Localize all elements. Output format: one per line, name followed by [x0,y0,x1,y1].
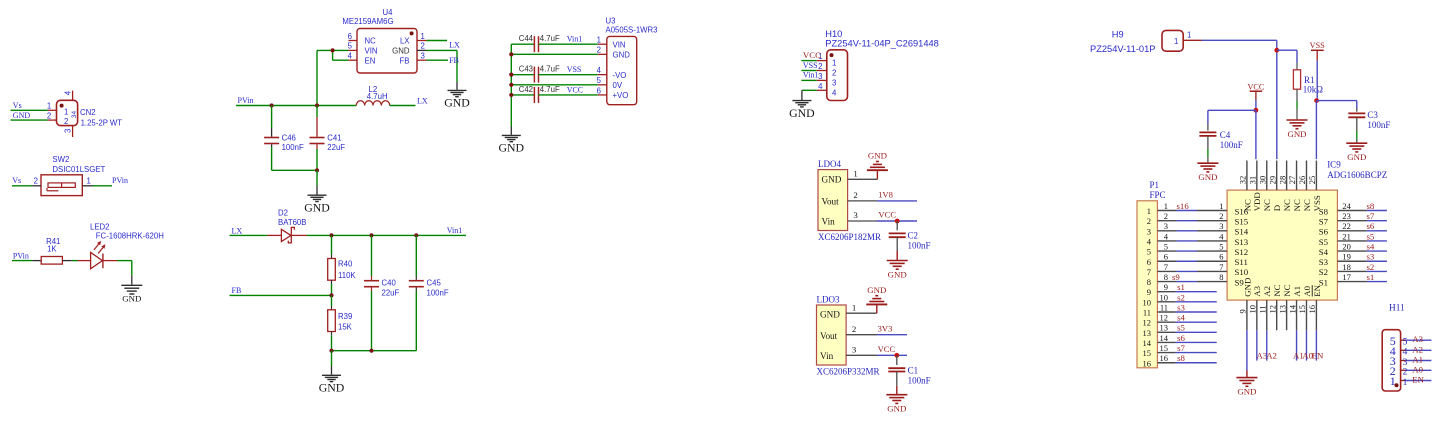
svg-text:16: 16 [1143,358,1152,368]
svg-text:100nF: 100nF [908,375,931,385]
regulator LDO4 XC6206P182MR [818,159,881,242]
svg-text:s8: s8 [1177,353,1185,363]
wire net 1V8 from LDO4 Vout [877,190,917,201]
svg-text:1: 1 [64,107,68,116]
svg-text:3: 3 [421,52,425,61]
svg-text:D: D [1272,205,1282,211]
wire U3 left rail to ground [509,44,513,135]
svg-text:LDO4: LDO4 [818,159,841,169]
svg-text:13: 13 [1160,323,1169,333]
svg-text:FB: FB [449,56,459,65]
svg-text:1K: 1K [47,244,57,253]
power port VSS [1310,41,1325,61]
svg-text:3: 3 [1164,221,1168,231]
svg-text:s16: s16 [1177,201,1190,211]
svg-text:FC-1608HRK-620H: FC-1608HRK-620H [96,231,164,240]
svg-text:A1: A1 [1292,286,1302,297]
svg-text:PZ254V-11-01P: PZ254V-11-01P [1090,44,1155,54]
svg-text:3: 3 [852,345,857,355]
svg-text:GND: GND [822,175,842,185]
wire H9 pin1 to IC9 D pin [1202,40,1280,159]
svg-text:NC: NC [1272,284,1282,296]
svg-text:24: 24 [1342,201,1351,211]
svg-text:8: 8 [1164,272,1168,282]
svg-text:1: 1 [87,176,91,185]
ground IC9 pin9 [1236,371,1257,397]
wire U3 pin2 to rail [511,53,598,55]
svg-text:11: 11 [1257,305,1267,313]
ground bar LDO4 pin1 [867,151,888,180]
svg-text:PVin: PVin [112,176,128,185]
svg-text:25: 25 [1307,176,1317,185]
svg-text:2: 2 [64,117,68,126]
svg-text:CN2: CN2 [80,108,96,117]
wire net Vs to SW2 pin2 [12,176,32,186]
svg-text:1: 1 [597,36,601,45]
svg-text:1: 1 [853,169,857,179]
svg-text:FB: FB [400,56,410,65]
svg-text:100nF: 100nF [282,143,304,152]
svg-text:H9: H9 [1112,30,1124,40]
svg-text:VCC: VCC [803,50,821,60]
svg-text:A0: A0 [1302,285,1312,296]
svg-text:1: 1 [832,59,836,68]
capacitor C4 100nF [1199,110,1242,162]
wire net VCC to H10 pin1 [801,50,821,61]
IC9 right wires nets s8-s1 [1367,201,1387,282]
svg-text:VCC: VCC [567,85,583,94]
wire C46 C41 bottoms to ground [272,168,320,194]
svg-text:6: 6 [597,86,601,95]
svg-text:S16: S16 [1235,206,1249,216]
svg-text:s1: s1 [1367,272,1375,282]
svg-text:NC: NC [1302,199,1312,211]
connector P1 FPC [1137,180,1166,368]
svg-text:3: 3 [1147,226,1151,236]
svg-text:S13: S13 [1235,237,1249,247]
wire L2 to LX [390,96,428,105]
svg-text:s7: s7 [1177,343,1185,353]
capacitor C42 4.7uF [511,85,598,103]
svg-text:ME2159AM6G: ME2159AM6G [342,17,393,26]
ground H10 [789,101,815,120]
svg-text:1: 1 [1219,201,1223,211]
wire net Vin1 top rail [307,226,466,237]
svg-text:10: 10 [1160,292,1169,302]
wire LED2 to ground [117,261,132,285]
svg-text:5: 5 [1403,338,1408,348]
ground bar LDO3 pin1 [866,285,887,313]
svg-text:A3: A3 [1412,334,1423,344]
capacitor C44 4.7uF [511,34,598,52]
svg-text:5: 5 [1219,242,1223,252]
svg-text:3: 3 [1219,221,1223,231]
svg-text:FPC: FPC [1150,190,1166,200]
svg-text:R40: R40 [338,260,353,269]
svg-text:U4: U4 [383,8,394,17]
svg-text:VDD: VDD [1252,192,1262,211]
svg-text:s3: s3 [1177,302,1185,312]
svg-text:2: 2 [853,190,857,200]
svg-text:6: 6 [1219,252,1223,262]
svg-text:GND: GND [1198,172,1217,182]
connector H11 [1382,304,1424,391]
svg-text:7: 7 [1219,262,1223,272]
svg-text:4: 4 [597,66,602,75]
svg-text:22uF: 22uF [382,289,400,298]
wire U3 pin5 to rail [511,84,598,86]
IC9 left pins S16-S9 [1197,201,1249,287]
wire to resistor R1 [1277,50,1297,70]
svg-text:EN: EN [365,56,376,65]
svg-text:7: 7 [1164,262,1168,272]
svg-text:1: 1 [1187,31,1191,40]
wire net FB [230,286,334,298]
svg-text:C42: C42 [519,85,533,94]
svg-text:C46: C46 [282,134,296,143]
ground U4 [444,90,470,109]
svg-text:16: 16 [1160,353,1169,363]
svg-text:LED2: LED2 [90,223,110,232]
wire net A0 from IC9 pin15 [1302,330,1313,360]
power port VCC [1247,83,1264,100]
svg-text:DSIC01LSGET: DSIC01LSGET [52,165,105,174]
svg-text:LX: LX [449,41,460,50]
svg-text:14: 14 [1143,338,1152,348]
capacitor C1 100nF [888,355,930,386]
svg-text:11: 11 [1160,302,1168,312]
svg-text:2: 2 [1164,211,1168,221]
wire net VCC from LDO3 Vin [877,344,907,358]
regulator LDO3 XC6206P332MR [817,295,880,377]
svg-text:GND: GND [789,106,815,120]
svg-text:s3: s3 [1367,252,1375,262]
svg-text:A2: A2 [1412,344,1423,354]
svg-text:10: 10 [1143,297,1152,307]
svg-text:GND: GND [613,51,631,60]
svg-text:15: 15 [1143,348,1152,358]
svg-text:S8: S8 [1319,206,1329,216]
svg-text:3V3: 3V3 [878,324,893,334]
svg-text:NC: NC [1282,284,1292,296]
svg-text:13: 13 [1277,305,1287,314]
wire R1 to ground [1296,89,1298,119]
svg-text:S6: S6 [1319,227,1329,237]
svg-text:4: 4 [818,82,823,91]
svg-text:22: 22 [1342,221,1351,231]
svg-text:8: 8 [1147,277,1151,287]
svg-text:BAT60B: BAT60B [278,218,306,227]
svg-text:H11: H11 [1389,304,1405,314]
svg-text:1: 1 [852,302,856,312]
svg-text:S10: S10 [1235,267,1249,277]
svg-text:s2: s2 [1367,262,1375,272]
svg-text:2: 2 [1403,368,1408,378]
svg-text:3: 3 [818,72,822,81]
svg-text:VIN: VIN [613,40,626,49]
svg-text:15: 15 [1297,305,1307,314]
svg-text:FB: FB [232,286,242,295]
svg-text:S14: S14 [1235,227,1249,237]
svg-text:4.7uH: 4.7uH [367,92,388,101]
svg-text:VSS: VSS [803,61,818,70]
svg-text:SW2: SW2 [52,155,69,164]
svg-text:14: 14 [1160,333,1169,343]
svg-text:100nF: 100nF [1220,140,1243,150]
wire U4 VIN EN to PVin rail [317,48,348,105]
svg-text:XC6206P332MR: XC6206P332MR [817,367,880,377]
wire net GND to CN2 pin2 [11,111,48,120]
svg-text:P1: P1 [1150,180,1160,190]
wire divider bottom to ground [329,349,416,375]
svg-text:2: 2 [852,324,856,334]
svg-text:LDO3: LDO3 [817,295,840,305]
capacitor C45 100nF [409,235,449,350]
wire net VCC from LDO4 Vin [877,210,917,224]
wire IC9 GND pin9 to ground [1246,330,1248,370]
svg-text:12: 12 [1267,305,1277,314]
capacitor C43 4.7uF [511,65,598,83]
svg-text:3: 3 [832,78,836,87]
svg-text:C44: C44 [519,34,534,43]
svg-text:NC: NC [365,37,377,46]
svg-text:8: 8 [1219,272,1223,282]
wire net A2 from IC9 pin11 [1266,330,1277,360]
svg-text:Vin1: Vin1 [567,35,583,44]
svg-text:GND: GND [868,151,887,161]
H11 wires nets A3 A2 A1 A0 EN [1401,340,1432,380]
wire U4 GND pin2 to ground [426,50,457,89]
svg-text:31: 31 [1248,176,1258,185]
svg-text:LX: LX [417,96,428,105]
svg-text:VCC: VCC [1247,83,1264,92]
svg-text:6: 6 [348,32,352,41]
svg-text:32: 32 [1238,176,1248,185]
svg-text:Vin1: Vin1 [447,226,463,235]
svg-text:Vin1: Vin1 [803,71,819,80]
svg-text:GND: GND [867,285,886,295]
svg-text:2: 2 [1147,216,1151,226]
svg-text:C2: C2 [908,231,919,241]
ground C3 [1346,143,1367,162]
resistor R41 1K [41,237,62,264]
svg-text:2: 2 [1219,211,1223,221]
svg-text:4: 4 [832,88,837,97]
wire net PVin from SW2 pin1 [93,176,128,186]
svg-text:S15: S15 [1235,216,1249,226]
svg-text:S4: S4 [1319,247,1329,257]
resistor R1 10kOhm [1293,70,1323,95]
svg-text:Vs: Vs [12,176,21,185]
svg-text:GND: GND [392,47,410,56]
svg-text:s5: s5 [1367,231,1375,241]
svg-text:1: 1 [421,32,425,41]
svg-text:GND: GND [304,200,330,214]
svg-text:Vout: Vout [822,197,840,207]
svg-text:29: 29 [1267,176,1277,185]
wire H10 pin4 to ground [802,90,817,100]
wire net PVin to R41 [12,251,41,260]
wire net VSS to H10 pin2 [801,61,817,71]
svg-text:2: 2 [34,176,38,185]
svg-text:GND: GND [888,270,907,280]
svg-text:GND: GND [444,96,470,110]
resistor R39 15K [328,295,353,350]
svg-text:21: 21 [1342,231,1351,241]
capacitor C46 100nF [264,106,304,171]
ground LED2 [121,285,142,303]
svg-text:C4: C4 [1220,130,1231,140]
svg-text:3: 3 [853,210,858,220]
svg-text:GND: GND [319,381,345,395]
svg-text:15K: 15K [338,322,353,331]
svg-text:S11: S11 [1235,257,1248,267]
svg-text:S5: S5 [1319,237,1329,247]
wire R41 to LED2 [62,260,77,262]
svg-text:LX: LX [232,226,243,235]
svg-text:4.7uF: 4.7uF [540,85,560,94]
svg-text:s9: s9 [1172,272,1180,282]
power module U3 A0505S-1WR3 [597,16,658,104]
svg-text:14: 14 [1287,304,1297,313]
ground R1 [1287,120,1308,139]
svg-text:19: 19 [1342,252,1351,262]
svg-text:C45: C45 [427,279,442,288]
svg-text:18: 18 [1342,262,1351,272]
svg-text:100nF: 100nF [427,289,449,298]
svg-text:1: 1 [47,102,51,111]
svg-text:-VO: -VO [613,71,627,80]
svg-text:0V: 0V [613,81,623,90]
svg-text:16: 16 [1307,305,1317,314]
svg-text:5: 5 [597,76,602,85]
capacitor C41 22uF [310,106,346,171]
svg-text:VSS: VSS [567,65,582,74]
svg-text:GND: GND [122,294,141,304]
svg-text:A1: A1 [1412,355,1423,365]
svg-text:S12: S12 [1235,247,1249,257]
svg-text:1: 1 [1403,378,1408,388]
svg-text:NC: NC [1292,199,1302,211]
svg-text:3: 3 [64,129,73,133]
wire net Vin1 to H10 pin3 [801,71,818,81]
svg-text:Vout: Vout [820,331,838,341]
svg-text:s4: s4 [1177,313,1185,323]
svg-text:2: 2 [818,62,822,71]
svg-text:A2: A2 [1266,351,1277,361]
svg-text:26: 26 [1297,176,1307,185]
wire net 3V3 from LDO3 Vout [877,324,907,335]
LED LED2 FC-1608HRK-620H [78,223,164,269]
svg-text:s5: s5 [1177,323,1185,333]
connector H10 PZ254V-11-04P [817,29,939,101]
svg-text:13: 13 [1143,328,1152,338]
switch SW2 [32,155,105,195]
svg-text:Vs: Vs [13,101,22,110]
svg-text:28: 28 [1277,176,1287,185]
svg-text:VCC: VCC [878,344,896,354]
wire U4 LX pin1 [426,41,460,50]
svg-text:30: 30 [1257,176,1267,185]
svg-text:GND: GND [1287,129,1306,139]
svg-text:s2: s2 [1177,292,1185,302]
svg-text:GND: GND [1242,278,1252,297]
svg-text:D2: D2 [278,209,288,218]
capacitor C2 100nF [889,221,931,251]
svg-text:100nF: 100nF [1367,120,1390,130]
svg-text:2: 2 [832,69,836,78]
multiplexer IC9 ADG1606BCPZ [1227,159,1387,300]
diode D2 BAT60B [267,209,307,243]
svg-text:GND: GND [1237,387,1256,397]
svg-text:3: 3 [71,114,78,118]
svg-text:110K: 110K [338,271,356,280]
wire U4 FB pin3 [426,56,458,65]
svg-text:GND: GND [1347,152,1366,162]
ground C2 [887,251,908,280]
svg-text:NC: NC [1282,199,1292,211]
svg-text:12: 12 [1143,318,1152,328]
wire net A3 from IC9 pin10 [1257,330,1268,360]
svg-text:C1: C1 [908,366,919,376]
svg-text:S2: S2 [1319,267,1328,277]
svg-text:S3: S3 [1319,257,1329,267]
svg-text:9: 9 [1164,282,1168,292]
svg-text:C40: C40 [382,279,397,288]
capacitor C3 100nF [1348,101,1390,143]
P1 wires rows 9-16 nets s1-s8 [1157,282,1216,363]
wire VCC to IC9 VDD and C4 [1208,100,1258,159]
svg-text:GND: GND [13,111,31,120]
svg-text:3: 3 [1403,358,1408,368]
svg-text:12: 12 [1160,313,1169,323]
svg-text:VSS: VSS [1310,41,1325,50]
svg-text:GND: GND [820,310,840,320]
wire VSS to IC9 pin25 and C3 [1314,61,1357,160]
svg-text:5: 5 [348,42,353,51]
svg-text:4.7uF: 4.7uF [540,34,560,43]
svg-text:PZ254V-11-04P_C2691448: PZ254V-11-04P_C2691448 [825,38,939,48]
svg-text:9: 9 [1147,287,1151,297]
svg-text:EN: EN [1312,351,1324,361]
svg-text:5: 5 [1147,247,1151,257]
svg-text:VCC: VCC [878,210,896,220]
svg-text:2: 2 [597,46,601,55]
IC9 bottom pins 9-16 [1238,278,1322,331]
svg-text:A0: A0 [1412,364,1423,374]
svg-text:Vin: Vin [820,351,834,361]
IC9 top pins 32-25 [1238,161,1322,212]
svg-text:5: 5 [1164,242,1168,252]
svg-text:C43: C43 [519,65,533,74]
wire net EN from IC9 pin16 [1312,330,1324,360]
svg-text:2: 2 [47,111,51,120]
svg-text:s6: s6 [1367,221,1375,231]
op-amp U4 ME2159AM6G [342,8,426,73]
ground divider [319,375,345,394]
svg-text:2: 2 [421,42,425,51]
svg-text:U3: U3 [606,16,616,25]
capacitor C40 22uF [364,235,400,350]
resistor R40 110K [328,235,357,295]
svg-text:4: 4 [1403,348,1408,358]
connector CN2 [47,90,122,137]
IC9 right pins S8-S1 [1319,201,1367,287]
svg-text:PVin: PVin [238,96,254,105]
svg-text:1: 1 [1174,37,1178,46]
svg-text:1: 1 [1164,201,1168,211]
svg-text:EN: EN [1412,375,1424,385]
